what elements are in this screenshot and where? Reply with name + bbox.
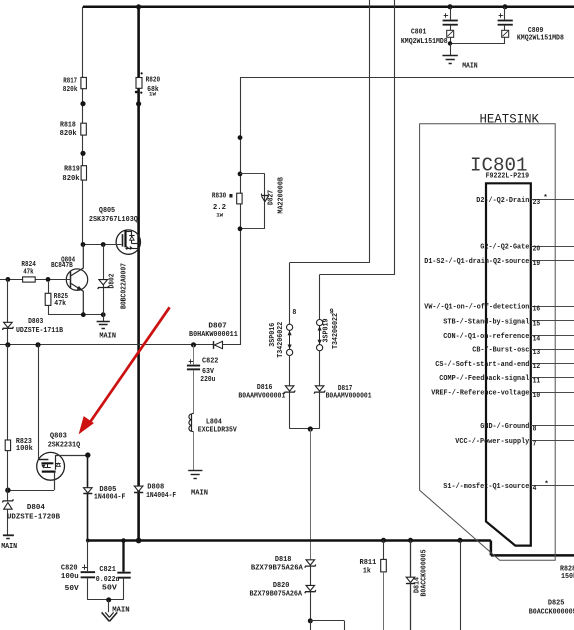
svg-text:C822: C822 xyxy=(202,357,219,365)
svg-text:B0AAMV000001: B0AAMV000001 xyxy=(238,393,285,401)
diode D808 1N4004-F xyxy=(134,483,177,500)
node cap ground junction xyxy=(448,41,452,45)
svg-text:C801: C801 xyxy=(411,29,427,37)
svg-text:F9222L-P219: F9222L-P219 xyxy=(486,172,530,180)
svg-text:R817: R817 xyxy=(63,78,77,86)
svg-text:10: 10 xyxy=(533,392,541,400)
svg-text:2SK3767L103Q: 2SK3767L103Q xyxy=(89,216,138,224)
wire output branch down xyxy=(460,541,462,630)
svg-text:220u: 220u xyxy=(200,376,215,384)
ground MAIN (D804) xyxy=(1,535,17,551)
svg-text:3SP016: 3SP016 xyxy=(269,322,277,346)
diode D802 B0BC022A0007 xyxy=(98,245,129,315)
svg-text:20: 20 xyxy=(533,246,541,254)
pin 16 VW-/-Q1-on-/-off-detection xyxy=(424,303,574,313)
svg-text:1N4004-F: 1N4004-F xyxy=(94,493,126,501)
wire main switched rail (bold) xyxy=(137,7,140,541)
svg-text:D816: D816 xyxy=(257,384,273,392)
resistor R823 100k xyxy=(5,345,33,453)
svg-text:D2-/-Q2-Drain: D2-/-Q2-Drain xyxy=(476,197,529,205)
svg-text:VW-/-Q1-on-/-off-detection: VW-/-Q1-on-/-off-detection xyxy=(424,303,529,311)
svg-text:14: 14 xyxy=(533,335,541,343)
node R824/R825 junction xyxy=(46,277,51,282)
svg-text:150k: 150k xyxy=(561,573,574,581)
ground MAIN (C801/C809) xyxy=(442,43,477,70)
svg-text:Q803: Q803 xyxy=(50,432,67,440)
node R811 junction xyxy=(381,538,386,543)
resistor R817 xyxy=(63,77,87,93)
svg-text:4: 4 xyxy=(533,485,537,493)
node source/D804 junction xyxy=(5,488,10,493)
junction bus / C801 xyxy=(448,4,453,9)
svg-text:8: 8 xyxy=(292,309,296,317)
svg-text:C809: C809 xyxy=(528,27,544,35)
node Q803 drain junction xyxy=(85,452,90,457)
node on R830 branch xyxy=(238,135,243,140)
wire upper feed (y=78) xyxy=(240,77,574,79)
capacitor C820 100u 50V xyxy=(61,541,95,600)
connector 3SP016 T34206022 pin 8 xyxy=(269,309,297,358)
pin 19 D1-S2-/-Q1-drain-Q2-source xyxy=(424,258,574,268)
svg-text:1W: 1W xyxy=(149,90,156,97)
ground MAIN (L804) xyxy=(188,431,208,497)
svg-text:D825: D825 xyxy=(548,599,565,607)
wire junction down to bottom rail xyxy=(310,429,312,560)
svg-text:D1-S2-/-Q1-drain-Q2-source: D1-S2-/-Q1-drain-Q2-source xyxy=(424,258,529,266)
svg-text:MAIN: MAIN xyxy=(462,63,478,71)
svg-text:D804: D804 xyxy=(27,504,45,512)
diode D814 B0ACCK000005 xyxy=(406,541,429,630)
svg-text:T34206022: T34206022 xyxy=(277,321,285,357)
inductor L804 EXCELDR35V xyxy=(189,414,237,435)
svg-text:C821: C821 xyxy=(99,566,116,574)
pin 12 CS-/-Soft-start-and-end xyxy=(435,361,574,371)
pin 14 CON-/-Q1-on-reference xyxy=(443,333,574,343)
svg-text:12: 12 xyxy=(533,363,541,371)
pin 20 G2-/-Q2-Gate xyxy=(480,243,574,253)
wire top power bus xyxy=(83,6,574,9)
svg-text:11: 11 xyxy=(533,377,541,385)
junction bus / Q805 drain line xyxy=(136,4,141,9)
node C822/D807 junction xyxy=(191,342,196,347)
svg-text:23: 23 xyxy=(533,199,541,207)
node D802 top junction xyxy=(101,242,106,247)
node base net left end xyxy=(6,277,11,282)
svg-text:820k: 820k xyxy=(62,175,80,183)
svg-text:STB-/-Stand-by-signal: STB-/-Stand-by-signal xyxy=(443,318,529,326)
node R830/D827 bottom junction xyxy=(238,226,243,231)
transistor Q805 2SK3767L103Q xyxy=(89,207,141,254)
svg-text:100k: 100k xyxy=(16,445,33,453)
svg-text:13: 13 xyxy=(533,349,541,357)
svg-text:GND-/-Ground: GND-/-Ground xyxy=(480,423,529,431)
svg-text:820k: 820k xyxy=(63,86,78,94)
resistor R818 xyxy=(60,121,87,137)
node R818/R819 junction xyxy=(80,151,85,156)
svg-text:D808: D808 xyxy=(147,483,164,491)
node C821 junction xyxy=(121,538,126,543)
svg-text:KMQ2WL151MD8: KMQ2WL151MD8 xyxy=(401,38,448,46)
svg-text:100u: 100u xyxy=(61,573,79,581)
svg-text:CB-/-Burst-osc: CB-/-Burst-osc xyxy=(472,347,529,355)
wire bottom rail (bold) xyxy=(88,539,491,542)
svg-text:3SP019: 3SP019 xyxy=(322,318,330,342)
svg-text:*: * xyxy=(543,194,548,202)
junction bus / C809 xyxy=(503,4,508,9)
svg-text:16: 16 xyxy=(533,306,541,314)
diode D818 BZX79B75A26A xyxy=(251,556,316,585)
node zener chain bottom junction xyxy=(308,618,313,623)
svg-text:19: 19 xyxy=(533,260,541,268)
wire R830 branch vertical xyxy=(240,78,242,345)
diode D807 B0HAKW000011 xyxy=(189,323,240,349)
svg-text:50V: 50V xyxy=(65,585,80,593)
svg-text:G2-/-Q2-Gate: G2-/-Q2-Gate xyxy=(480,243,529,251)
svg-text:2SK2231Q: 2SK2231Q xyxy=(48,441,81,449)
svg-text:C820: C820 xyxy=(61,565,78,573)
svg-text:MAIN: MAIN xyxy=(99,332,116,340)
wire Q805 gate xyxy=(83,244,122,246)
pin 23 D2-/-Q2-Drain xyxy=(476,194,574,207)
wire Q804 base xyxy=(0,279,71,281)
connector 3SP019 T34206022 pin 9 xyxy=(317,308,341,350)
svg-text:R830: R830 xyxy=(212,193,227,201)
resistor R824 xyxy=(21,261,36,282)
svg-text:UDZSTE-1720B: UDZSTE-1720B xyxy=(7,513,60,521)
svg-text:VREF-/-Reference-voltage: VREF-/-Reference-voltage xyxy=(431,390,529,398)
svg-text:50V: 50V xyxy=(102,584,118,592)
pin 7 VCC-/-Power-supply xyxy=(455,438,574,448)
node R817/R818 junction xyxy=(80,101,85,106)
svg-text:UDZSTE-1711B: UDZSTE-1711B xyxy=(16,327,63,335)
pin 10 VREF-/-Reference-voltage xyxy=(431,390,574,400)
svg-text:L804: L804 xyxy=(206,419,222,427)
svg-text:CON-/-Q1-on-reference: CON-/-Q1-on-reference xyxy=(443,333,529,341)
svg-text:*: * xyxy=(544,481,549,489)
wire connector 3SP016 feed xyxy=(369,0,371,263)
node R820 lower junction xyxy=(136,101,141,106)
wire connector 3SP019 feed xyxy=(394,0,396,275)
node gate junction xyxy=(81,242,86,247)
svg-text:B0BC022A0007: B0BC022A0007 xyxy=(121,263,129,309)
svg-text:47k: 47k xyxy=(23,268,34,276)
node emitter junction xyxy=(81,312,86,317)
svg-text:D827: D827 xyxy=(268,190,276,205)
wire capacitor ground join xyxy=(88,599,124,601)
svg-text:MAIN: MAIN xyxy=(191,490,208,498)
svg-text:MAIN: MAIN xyxy=(112,607,130,615)
node D805/C820 junction xyxy=(86,539,90,543)
heatsink outline xyxy=(420,124,556,561)
wire emitter/ground net xyxy=(48,314,103,316)
diode D816 B0AAMV000001 xyxy=(238,356,295,429)
wire Q803 source xyxy=(54,472,56,491)
wire cap ground join xyxy=(450,43,505,45)
svg-text:MAIN: MAIN xyxy=(1,543,17,551)
resistor R830 2.2 1W xyxy=(212,193,242,219)
svg-text:COMP-/-Feedback-signal: COMP-/-Feedback-signal xyxy=(439,375,529,383)
wire Q803 drain xyxy=(55,455,87,457)
node join junction xyxy=(308,426,313,431)
svg-text:BZX79B075A26A: BZX79B075A26A xyxy=(250,591,303,599)
svg-text:820k: 820k xyxy=(60,130,77,138)
resistor R825 xyxy=(45,282,68,315)
pin 15 STB-/-Stand-by-signal xyxy=(443,318,574,328)
transistor Q803 2SK2231Q xyxy=(37,432,81,480)
svg-text:R818: R818 xyxy=(60,121,76,129)
pin 11 COMP-/-Feedback-signal xyxy=(439,375,574,385)
capacitor C801 KMQ2WL151MD8 xyxy=(401,7,458,46)
wire Q803 gate drop xyxy=(38,345,40,456)
svg-text:BZX79B75A26A: BZX79B75A26A xyxy=(251,564,303,572)
svg-text:BC847B: BC847B xyxy=(51,262,73,270)
node output branch junction xyxy=(458,538,463,543)
pin 13 CB-/-Burst-osc xyxy=(472,347,574,357)
svg-text:D802: D802 xyxy=(109,273,117,288)
node D802 bottom junction xyxy=(101,312,106,317)
svg-text:R820: R820 xyxy=(146,76,161,84)
svg-text:KMQ2WL151MD8: KMQ2WL151MD8 xyxy=(517,35,564,43)
svg-text:R819: R819 xyxy=(64,166,80,174)
wire resistor divider chain xyxy=(82,7,84,245)
svg-text:1N4004-F: 1N4004-F xyxy=(146,492,176,500)
pin 4 S1-/-mosfet-Q1-source xyxy=(443,483,574,493)
svg-text:1k: 1k xyxy=(363,567,371,575)
svg-text:7: 7 xyxy=(533,440,537,448)
svg-text:D803: D803 xyxy=(28,318,44,326)
diode D825 B0ACCK000005 xyxy=(529,599,574,616)
wire ground net horizontal (y=345) xyxy=(0,344,194,346)
op-amp U1 / controller IC801 F9222L-P219 body xyxy=(486,183,531,545)
capacitor C809 KMQ2WL151MD8 xyxy=(498,7,565,44)
svg-text:Q805: Q805 xyxy=(99,207,116,215)
svg-text:15: 15 xyxy=(533,321,541,329)
capacitor C822 220u 63V xyxy=(187,345,219,414)
resistor R819 xyxy=(62,166,86,183)
resistor R820 xyxy=(135,72,161,97)
node R830/D827 top junction xyxy=(238,172,243,177)
svg-text:MA220000B: MA220000B xyxy=(277,177,285,214)
diode D804 UDZSTE-1720B xyxy=(2,451,60,535)
svg-text:HEATSINK: HEATSINK xyxy=(480,112,540,126)
diode D803 UDZSTE-1711B xyxy=(2,279,63,344)
ground MAIN (C820/C821) xyxy=(102,600,130,622)
node cap ground junction xyxy=(106,597,111,602)
svg-text:B0ACCK000005: B0ACCK000005 xyxy=(420,549,428,596)
svg-text:B0AAMV000001: B0AAMV000001 xyxy=(326,392,372,400)
capacitor C821 0.022u 50V xyxy=(96,541,131,600)
svg-text:S1-/-mosfet-Q1-source: S1-/-mosfet-Q1-source xyxy=(443,483,529,491)
svg-text:47k: 47k xyxy=(54,300,66,308)
svg-text:D818: D818 xyxy=(275,556,292,564)
svg-text:1W: 1W xyxy=(216,211,223,218)
svg-text:D820: D820 xyxy=(273,582,290,590)
resistor R811 1k xyxy=(360,541,387,630)
ground MAIN (Q804 emitter) xyxy=(97,315,116,341)
diode D820 BZX79B075A26A xyxy=(250,582,316,621)
node main rail junction xyxy=(136,538,142,544)
resistor R828 150k (cut at edge) xyxy=(560,565,574,581)
pin 8 GND-/-Ground xyxy=(480,423,574,433)
diode D805 1N4004-F xyxy=(83,455,126,540)
node Q803 gate branch junction xyxy=(35,342,40,347)
svg-text:T34206022: T34206022 xyxy=(332,313,340,349)
annotation red arrow pointing at Q803 xyxy=(79,307,170,434)
svg-text:CS-/-Soft-start-and-end: CS-/-Soft-start-and-end xyxy=(435,361,529,369)
node D803 bottom junction xyxy=(5,342,10,347)
svg-text:D807: D807 xyxy=(208,323,226,331)
svg-text:0.022u: 0.022u xyxy=(96,576,120,584)
wire to off-page bottom xyxy=(310,621,312,630)
diode D817 B0AAMV000001 xyxy=(314,351,372,429)
node D814 junction xyxy=(408,538,413,543)
diode D827 MA220000B (parallel with R830) xyxy=(240,174,285,229)
svg-text:B0ACCK000005: B0ACCK000005 xyxy=(529,609,574,617)
svg-text:VCC-/-Power-supply: VCC-/-Power-supply xyxy=(455,438,529,446)
svg-text:EXCELDR35V: EXCELDR35V xyxy=(198,427,237,435)
svg-text:B0HAKW000011: B0HAKW000011 xyxy=(189,331,238,339)
wire connector chains join xyxy=(290,428,320,430)
svg-text:8: 8 xyxy=(533,426,537,434)
svg-text:63V: 63V xyxy=(202,368,214,376)
svg-text:R811: R811 xyxy=(360,559,377,567)
transistor Q804 BC847B xyxy=(51,245,88,315)
